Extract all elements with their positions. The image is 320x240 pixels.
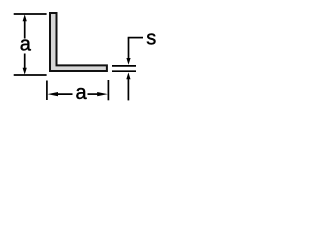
left dimension a : arrowhead down bbox=[23, 68, 27, 75]
thickness dimension s : lower extension line bbox=[112, 70, 136, 72]
svg-text:a: a bbox=[75, 82, 87, 104]
thickness dimension s : leader line bbox=[128, 37, 143, 39]
left dimension a : dimension line lower segment bbox=[24, 54, 26, 71]
bottom dimension a : dimension line right segment bbox=[88, 93, 101, 95]
thickness dimension s : upper arrow shaft bbox=[128, 38, 130, 59]
left dimension a : dimension line upper segment bbox=[24, 18, 26, 39]
thickness dimension s : lower arrowhead (up) bbox=[126, 72, 130, 79]
thickness dimension s : upper arrowhead (down) bbox=[126, 58, 130, 65]
left dimension a : bottom extension line bbox=[14, 74, 47, 76]
bottom dimension a : left extension line bbox=[46, 81, 48, 101]
svg-text:s: s bbox=[146, 28, 156, 50]
bottom dimension a : right extension line bbox=[107, 80, 109, 100]
thickness dimension s : lower arrow shaft bbox=[127, 79, 129, 101]
left dimension a : top extension line bbox=[14, 13, 47, 15]
bottom dimension a : arrowhead right bbox=[97, 92, 108, 96]
thickness dimension s : upper extension line bbox=[112, 65, 136, 67]
left dimension a : arrowhead up bbox=[23, 14, 27, 21]
bottom dimension a : arrowhead left bbox=[48, 92, 59, 96]
bottom dimension a : dimension line left segment bbox=[54, 93, 73, 95]
svg-text:a: a bbox=[20, 33, 32, 55]
L-angle profile cross-section bbox=[50, 13, 107, 71]
